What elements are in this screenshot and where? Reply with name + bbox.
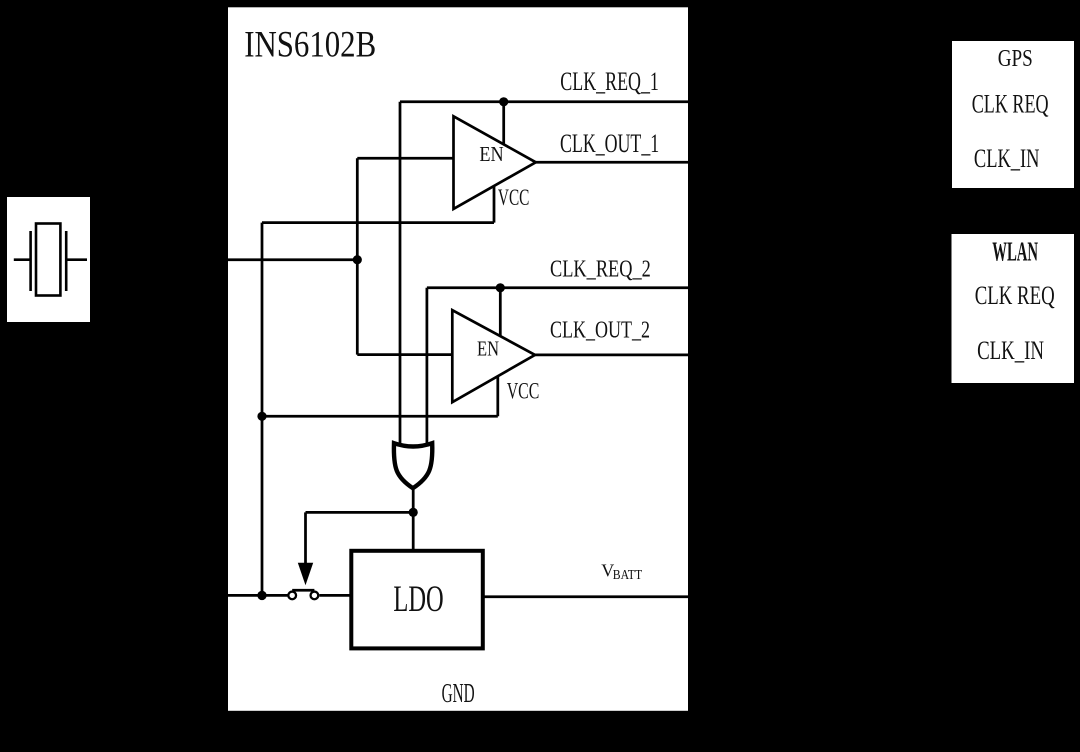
- junction dot CLK_REQ_2/EN2: [496, 283, 505, 292]
- chip U1 INS6102B body: [228, 7, 688, 711]
- svg-text:CLK REQ: CLK REQ: [972, 90, 1049, 119]
- wire VCC trunk: [261, 223, 264, 596]
- svg-text:CLK_REQ_1: CLK_REQ_1: [560, 66, 659, 96]
- wire buffer1 input: [357, 157, 454, 160]
- switch S1 contact right: [311, 592, 319, 600]
- wire CLK_REQ_2: [427, 286, 689, 289]
- junction dot OR output node: [409, 508, 418, 517]
- switch S1 contact left: [288, 592, 296, 600]
- wire EN1 stub: [502, 102, 505, 145]
- buffer U3 triangle: [452, 310, 535, 402]
- svg-text:GND: GND: [442, 678, 475, 708]
- junction dot CLK_REQ_1/EN1: [499, 97, 508, 106]
- wire switch to LDO: [319, 594, 351, 597]
- wire switch bar: [292, 589, 314, 592]
- junction dot battery rail node: [257, 591, 266, 600]
- svg-text:EN: EN: [477, 337, 499, 361]
- svg-text:CLK REQ: CLK REQ: [975, 281, 1055, 310]
- svg-text:CLK_IN: CLK_IN: [977, 336, 1044, 365]
- svg-text:VCC: VCC: [498, 185, 530, 210]
- svg-text:CLK_REQ_2: CLK_REQ_2: [550, 257, 651, 283]
- wire OR output to LDO: [412, 485, 415, 551]
- module WLAN box: [952, 234, 1075, 383]
- switch S1 arrow: [298, 563, 313, 586]
- junction dot VCC2 node: [257, 412, 266, 421]
- buffer U2 triangle: [454, 116, 536, 209]
- junction dot crystal node: [353, 255, 362, 264]
- wire EN2 stub: [499, 288, 502, 338]
- wire buffer input trunk: [356, 158, 359, 354]
- svg-text:INS6102B: INS6102B: [244, 24, 376, 65]
- svg-text:CLK_IN: CLK_IN: [974, 144, 1040, 173]
- regulator U5 LDO box: [351, 551, 483, 649]
- crystal Y1 outer box: [7, 197, 90, 322]
- wire buffer2 input: [357, 353, 453, 356]
- wire CLK_REQ_1: [400, 100, 689, 103]
- wire VCC1 stub: [262, 185, 494, 223]
- wire switch control feedback: [306, 512, 414, 565]
- wire crystal input: [228, 258, 357, 261]
- wire CLK_REQ_1 to OR input 1: [399, 102, 402, 448]
- module GPS box: [952, 41, 1074, 188]
- wire V_BATT output: [483, 595, 689, 598]
- svg-text:WLAN: WLAN: [992, 237, 1038, 267]
- svg-text:LDO: LDO: [393, 579, 443, 620]
- wire battery rail left: [228, 594, 288, 597]
- wire CLK_OUT_2: [535, 354, 689, 357]
- wire CLK_REQ_2 to OR input 2: [426, 288, 429, 448]
- svg-text:CLK_OUT_1: CLK_OUT_1: [560, 128, 659, 158]
- wire CLK_OUT_1: [536, 161, 689, 164]
- crystal Y1 symbol: [14, 224, 87, 296]
- svg-text:BATT: BATT: [613, 567, 643, 582]
- svg-text:CLK_OUT_2: CLK_OUT_2: [550, 318, 650, 344]
- OR gate U4: [394, 443, 432, 488]
- svg-text:GPS: GPS: [998, 46, 1033, 72]
- svg-text:VCC: VCC: [507, 379, 540, 404]
- wire VCC2 stub: [262, 374, 498, 416]
- svg-text:EN: EN: [479, 142, 503, 166]
